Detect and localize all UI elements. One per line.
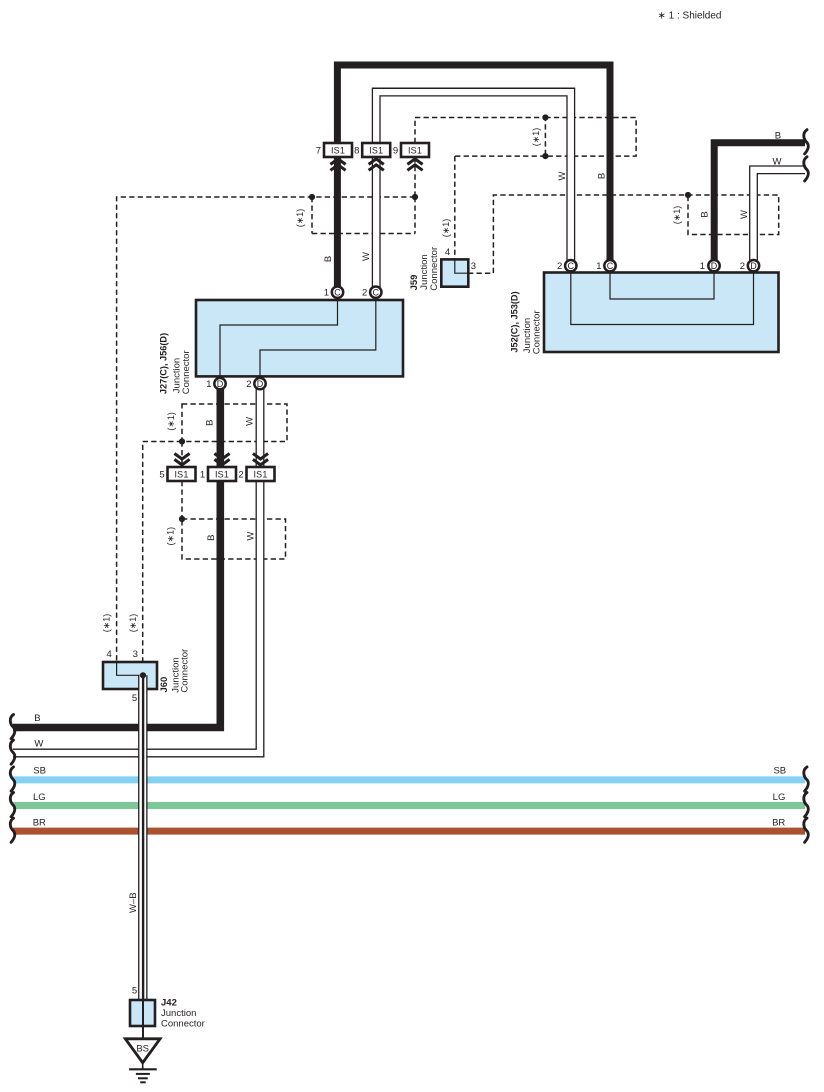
node below J27 dot — [179, 438, 185, 444]
node right box dot — [685, 192, 691, 198]
break SB right — [804, 767, 808, 791]
node: J60 internal junction dot — [140, 672, 146, 678]
node below IS1 row2 dot — [179, 516, 185, 522]
svg-text:C: C — [334, 288, 341, 298]
svg-text:W: W — [34, 739, 43, 750]
svg-text:W: W — [773, 156, 782, 167]
svg-text:IS1: IS1 — [331, 146, 345, 156]
break W right — [804, 157, 808, 181]
pin 1(D) J52 — [708, 260, 719, 271]
svg-text:J60: J60 — [159, 677, 170, 693]
splice IS1 pin 5 — [168, 467, 196, 481]
svg-text:J27(C), J56(D): J27(C), J56(D) — [159, 333, 169, 394]
node top box lower dot — [542, 153, 548, 159]
svg-text:2: 2 — [362, 288, 367, 299]
wire B loop: IS1-7 to J52 1(C) — [337, 65, 610, 289]
svg-text:4: 4 — [445, 247, 450, 258]
svg-text:1: 1 — [596, 261, 601, 272]
shield dashed line from IS1 pin 9 up to top dashed box — [415, 118, 545, 144]
svg-text:Connector: Connector — [429, 247, 440, 291]
wire W loop: IS1-8 to J52 2(C) — [376, 92, 571, 287]
svg-text:5: 5 — [132, 986, 137, 997]
shield dashed box top middle (*1) — [545, 118, 636, 157]
svg-text:(∗1): (∗1) — [102, 614, 112, 633]
arrow under IS1-8 — [369, 159, 384, 165]
junction connector J60 — [103, 662, 157, 689]
wire B row2: J27 1(D) down and left to break — [13, 389, 220, 728]
svg-text:C: C — [607, 261, 614, 271]
wire B right: from right break to J52 1(D) — [714, 143, 805, 260]
svg-text:B: B — [206, 535, 217, 541]
svg-text:BS: BS — [136, 1043, 149, 1054]
pin 1(D) J27 — [214, 378, 225, 389]
break LG left — [10, 793, 14, 817]
rotated labels — [102, 128, 750, 913]
svg-text:IS1: IS1 — [174, 470, 188, 480]
wire W-B: J60 pin 5 down to J42 — [138, 675, 148, 1001]
svg-text:B: B — [700, 211, 711, 217]
wire break squiggles — [10, 130, 808, 843]
wire W row2: J27 2(D) down and left to break — [13, 389, 260, 753]
svg-text:W: W — [246, 532, 257, 541]
shield dashed extension to second long drop to J60 pin 3 — [143, 442, 182, 663]
junction connector J27(C), J56(D) — [196, 300, 403, 376]
svg-text:5: 5 — [159, 470, 164, 481]
svg-text:2: 2 — [246, 379, 251, 390]
splice IS1 pin 7 — [324, 143, 352, 157]
svg-text:(∗1): (∗1) — [128, 614, 138, 633]
break B right — [804, 130, 808, 154]
pin 2(C) J27 — [370, 287, 381, 298]
wire LG horizontal — [13, 802, 805, 809]
svg-text:SB: SB — [773, 766, 786, 777]
ground symbol BS — [125, 1039, 160, 1083]
node row1 left dot — [309, 194, 315, 200]
svg-text:2: 2 — [557, 261, 562, 272]
node top box upper dot — [542, 114, 548, 120]
IS1 splice boxes row 2 — [168, 467, 275, 481]
svg-text:2: 2 — [740, 261, 745, 272]
connector pin circles — [214, 260, 759, 389]
svg-text:LG: LG — [773, 792, 786, 803]
svg-text:B: B — [323, 256, 334, 262]
pin 2(C) J52 — [565, 260, 576, 271]
svg-text:(∗1): (∗1) — [166, 412, 176, 431]
shield dashed line from box to J59 pin 4 — [455, 156, 546, 259]
IS1 splice boxes row 1 — [324, 143, 429, 157]
junction connector J42 — [130, 1000, 155, 1039]
junction connector J52(C), J53(D) — [544, 273, 779, 353]
svg-text:IS1: IS1 — [408, 146, 422, 156]
splice IS1 pin 9 — [401, 143, 429, 157]
splice IS1 pin 2 — [247, 467, 275, 481]
shield dashed line from IS1 pin 9 down to row1 dashed junction — [414, 157, 416, 197]
svg-text:W: W — [361, 252, 372, 261]
svg-text:Connector: Connector — [181, 350, 192, 394]
pin 2(D) J52 — [748, 260, 759, 271]
svg-text:(∗1): (∗1) — [165, 527, 175, 546]
svg-text:SB: SB — [33, 766, 46, 777]
svg-text:Connector: Connector — [180, 649, 191, 693]
svg-text:D: D — [711, 261, 718, 271]
wire SB horizontal — [13, 776, 805, 783]
pin 2(D) J27 — [254, 378, 265, 389]
svg-text:IS1: IS1 — [253, 470, 267, 480]
break W left — [10, 740, 14, 764]
svg-text:B: B — [34, 713, 40, 724]
shield dashed stub from IS1 pin 5 down to lower box — [181, 481, 183, 519]
svg-text:BR: BR — [772, 817, 785, 828]
svg-text:IS1: IS1 — [215, 470, 229, 480]
svg-text:B: B — [597, 173, 608, 179]
svg-text:(∗1): (∗1) — [295, 209, 305, 228]
arrow above IS1-5 — [174, 454, 189, 460]
svg-text:IS1: IS1 — [369, 146, 383, 156]
break LG right — [804, 793, 808, 817]
break B left — [10, 715, 14, 739]
svg-text:B: B — [775, 131, 781, 142]
svg-text:3: 3 — [133, 649, 138, 660]
svg-text:(∗1): (∗1) — [672, 206, 682, 225]
wire BR horizontal — [13, 828, 805, 835]
svg-text:BR: BR — [33, 817, 46, 828]
svg-text:4: 4 — [106, 649, 111, 660]
shield dashed box below J27 — [182, 404, 287, 442]
chevron arrows row2 (pointing down into IS1) — [174, 454, 268, 465]
arrow under IS1-7 — [330, 159, 345, 165]
break BR left — [10, 818, 14, 842]
wire W right: from right break to J52 2(D) — [754, 170, 806, 260]
svg-text:∗ 1 : Shielded: ∗ 1 : Shielded — [658, 11, 722, 22]
shield dashed path from J59 pin 3 to right dashed box — [468, 195, 779, 273]
svg-text:Connector: Connector — [531, 310, 542, 354]
pin 1(C) J52 — [604, 260, 615, 271]
svg-text:W: W — [557, 171, 568, 180]
svg-text:J42: J42 — [161, 998, 177, 1009]
svg-text:7: 7 — [316, 146, 321, 157]
svg-text:9: 9 — [393, 146, 398, 157]
break BR right — [804, 818, 808, 842]
junction connector J59 — [441, 259, 468, 286]
svg-text:(∗1): (∗1) — [531, 128, 541, 147]
svg-text:2: 2 — [238, 470, 243, 481]
svg-text:1: 1 — [206, 379, 211, 390]
arrow above IS1-2 — [253, 454, 268, 460]
svg-text:LG: LG — [33, 792, 46, 803]
svg-text:C: C — [568, 261, 575, 271]
svg-text:3: 3 — [471, 261, 476, 272]
svg-text:B: B — [205, 420, 216, 426]
svg-text:8: 8 — [354, 146, 359, 157]
svg-text:D: D — [217, 379, 224, 389]
svg-text:1: 1 — [324, 288, 329, 299]
svg-text:1: 1 — [200, 470, 205, 481]
shield dashed horizontal row1 to left long drop — [117, 197, 415, 662]
node row1 right dot — [412, 194, 418, 200]
svg-text:W: W — [739, 210, 750, 219]
break SB left — [10, 767, 14, 791]
svg-text:C: C — [373, 288, 380, 298]
pin 1(C) J27 — [332, 287, 343, 298]
svg-text:Connector: Connector — [161, 1018, 205, 1029]
shield dashed box below IS1 row2 — [182, 519, 286, 559]
shield dashed box row1 — [312, 197, 415, 234]
svg-text:1: 1 — [700, 261, 705, 272]
svg-text:D: D — [750, 261, 757, 271]
splice IS1 pin 8 — [362, 143, 390, 157]
arrow above IS1-1 — [214, 454, 229, 460]
svg-text:(∗1): (∗1) — [441, 219, 451, 238]
svg-text:D: D — [257, 379, 264, 389]
svg-text:W: W — [245, 417, 256, 426]
arrow under IS1-9 — [407, 159, 422, 165]
svg-text:W–B: W–B — [128, 892, 139, 913]
shield dashed stub into IS1 pin 5 — [181, 442, 183, 468]
svg-text:5: 5 — [132, 693, 137, 704]
svg-text:J52(C), J53(D): J52(C), J53(D) — [510, 291, 520, 352]
splice IS1 pin 1 — [208, 467, 236, 481]
chevron arrows row1 (pointing up into IS1) — [330, 159, 422, 170]
